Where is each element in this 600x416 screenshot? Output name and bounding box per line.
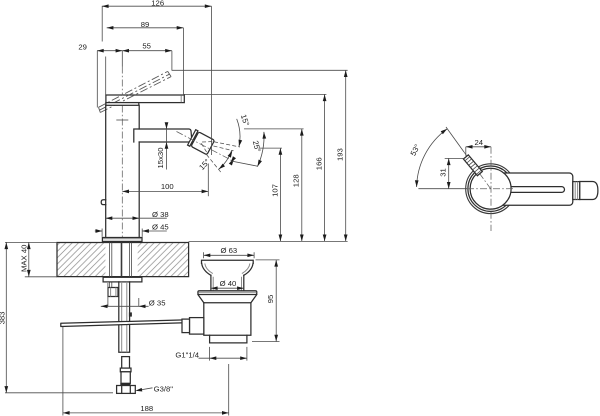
leader G3/8 — [135, 384, 173, 393]
top view main circle — [470, 168, 511, 209]
countertop hatched right slab — [138, 243, 189, 277]
arc 25deg — [256, 132, 266, 167]
dimension dia63 — [204, 246, 255, 258]
spout axis centerline 25deg — [177, 132, 233, 161]
dimension MAX 40 — [5, 242, 57, 276]
countertop outline — [57, 243, 189, 277]
top view lever arm — [485, 173, 573, 205]
drain tailpipe — [210, 335, 247, 343]
arc 15deg upper — [237, 119, 242, 147]
svg-text:128: 128 — [292, 174, 301, 187]
drain neck — [211, 275, 244, 291]
faucet shank pipe — [119, 282, 130, 352]
spout — [134, 129, 192, 142]
top view slot — [500, 187, 565, 193]
lever handle — [106, 95, 184, 103]
drain flange top — [202, 260, 254, 263]
dimension 188 — [63, 327, 229, 416]
svg-text:29: 29 — [78, 42, 87, 51]
drain flare curves — [202, 263, 253, 275]
top view connector block — [573, 182, 580, 200]
faucet body — [106, 105, 140, 237]
svg-text:Ø 63: Ø 63 — [220, 246, 237, 255]
dimension 29 — [78, 42, 122, 107]
dimension 55 — [122, 41, 172, 70]
dimension dia38 — [106, 210, 169, 220]
countertop hatched left slab — [57, 243, 105, 277]
rod clamp on pipe — [129, 312, 132, 316]
label 15deg lower — [197, 157, 212, 172]
pop-up knob on body — [101, 200, 106, 205]
pipe collar — [120, 368, 131, 372]
top view horizontal centerline — [418, 188, 513, 190]
dimension 15x30 — [156, 122, 168, 169]
drain taper ring — [198, 295, 257, 303]
dimension 166 — [184, 94, 327, 241]
spray cone dashed lines — [207, 142, 241, 173]
svg-text:G3/8": G3/8" — [154, 384, 174, 393]
dimension 107 — [259, 148, 283, 241]
base escutcheon flange — [102, 238, 142, 242]
under-counter washer — [103, 277, 142, 282]
dimension dia45 — [95, 222, 169, 237]
svg-text:Ø 45: Ø 45 — [152, 222, 169, 231]
pipe segment 3 — [121, 372, 130, 384]
drain top disc — [198, 291, 257, 295]
top view outer rings — [466, 164, 516, 214]
dimension 95 — [252, 260, 280, 342]
dimension 31 — [439, 158, 465, 188]
svg-text:193: 193 — [336, 148, 345, 161]
arc 53deg — [415, 127, 449, 187]
svg-text:95: 95 — [266, 295, 275, 304]
svg-text:Ø 38: Ø 38 — [152, 210, 169, 219]
dimension 126 — [102, 0, 212, 155]
svg-text:15x30: 15x30 — [156, 148, 165, 169]
svg-text:Ø 35: Ø 35 — [149, 298, 166, 307]
threaded rod dark through counter — [121, 243, 123, 278]
svg-text:166: 166 — [315, 157, 324, 170]
horizontal pop-up rod — [61, 320, 189, 327]
svg-text:188: 188 — [140, 404, 153, 413]
raised handle phantom outline — [99, 71, 172, 112]
body centerline — [116, 51, 128, 238]
top view aerator rod — [463, 155, 482, 176]
top view vertical centerline — [490, 147, 492, 231]
label 53deg — [409, 143, 422, 158]
top view diagonal axis line — [446, 127, 491, 189]
aerator connector band — [188, 130, 198, 147]
reference line to 25deg arc — [231, 161, 259, 166]
svg-text:126: 126 — [151, 0, 164, 7]
svg-text:24: 24 — [475, 138, 484, 147]
drain side port cap — [182, 319, 190, 333]
svg-text:55: 55 — [142, 41, 151, 50]
dimension 100 — [122, 164, 208, 197]
dark compression ring — [120, 383, 130, 385]
drain side port tube — [186, 318, 204, 335]
aerator body — [191, 132, 215, 155]
label 15deg upper — [239, 113, 251, 127]
fixing nut — [108, 288, 118, 297]
dimension dia40 — [211, 279, 244, 290]
top view grip — [580, 182, 598, 200]
dimension dia35 — [101, 283, 166, 308]
countertop right extension line — [189, 240, 348, 242]
fixing stud through counter — [110, 243, 112, 288]
dimension G1 1/4 — [175, 347, 247, 361]
svg-text:31: 31 — [439, 168, 448, 177]
body cap under lever — [106, 103, 139, 106]
svg-text:Ø 40: Ø 40 — [220, 279, 237, 288]
svg-text:G1"1/4: G1"1/4 — [175, 350, 199, 359]
svg-text:107: 107 — [271, 184, 280, 197]
dimension 89 — [107, 20, 184, 94]
svg-text:383: 383 — [0, 312, 7, 325]
drain body — [204, 303, 251, 336]
arc 15deg lower — [218, 150, 236, 171]
svg-text:MAX 40: MAX 40 — [20, 245, 29, 272]
pipe segment 2 — [122, 357, 130, 369]
G3/8 elbow body — [117, 386, 136, 394]
dimension 193 — [172, 70, 348, 241]
dimension 128 — [244, 129, 304, 241]
dimension 383 — [0, 242, 113, 392]
supply pipe right wall through counter — [129, 243, 131, 278]
label 25deg — [251, 140, 263, 154]
svg-text:89: 89 — [141, 20, 150, 29]
svg-text:100: 100 — [161, 182, 174, 191]
dimension 24 — [466, 138, 491, 156]
